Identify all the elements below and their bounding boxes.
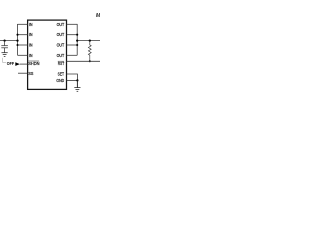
wire SHDN	[20, 63, 28, 65]
svg-text:RST: RST	[58, 61, 65, 66]
ground GND1	[2, 53, 8, 57]
svg-text:SS: SS	[28, 71, 33, 76]
svg-text:OUT: OUT	[57, 22, 65, 27]
junction	[16, 44, 18, 46]
svg-text:OUT: OUT	[57, 43, 65, 48]
junction	[89, 60, 91, 62]
wire SS	[18, 72, 28, 74]
svg-text:OUT: OUT	[57, 32, 65, 37]
wire IN2	[18, 34, 28, 36]
junction	[76, 40, 78, 42]
resistor R1	[88, 41, 91, 62]
svg-text:IN: IN	[29, 53, 32, 58]
wire switch stub	[3, 58, 7, 63]
svg-text:IN: IN	[29, 43, 32, 48]
wire output rail	[77, 40, 100, 42]
junction	[4, 40, 6, 42]
ground GND2	[74, 80, 80, 91]
node SHDN input arrow	[15, 62, 20, 66]
wire IN4	[18, 54, 28, 56]
wire IN3	[18, 44, 28, 46]
wire OUT1	[67, 23, 78, 25]
wire output bus	[76, 24, 78, 55]
svg-text:SET: SET	[58, 72, 65, 77]
wire OUT4	[67, 54, 78, 56]
capacitor C1	[1, 41, 8, 53]
wire OUT2	[67, 34, 78, 36]
junction	[76, 34, 78, 36]
wire SET	[67, 74, 78, 80]
junction	[76, 44, 78, 46]
svg-text:OFF: OFF	[7, 61, 15, 66]
junction	[16, 34, 18, 36]
wire input feed	[0, 40, 18, 42]
svg-text:IN: IN	[29, 32, 32, 37]
wire IN1	[18, 23, 28, 25]
IC U1	[28, 20, 67, 89]
svg-text:OUT: OUT	[57, 53, 65, 58]
junction	[89, 39, 91, 41]
junction	[16, 40, 18, 42]
svg-text:M: M	[96, 13, 100, 19]
wire RST rail	[67, 60, 101, 62]
svg-text:IN: IN	[29, 22, 32, 27]
junction	[76, 79, 78, 81]
svg-text:GND: GND	[56, 78, 64, 83]
wire GND	[67, 79, 78, 81]
wire input bus	[17, 24, 19, 55]
wire OUT3	[67, 44, 78, 46]
svg-text:SHDN: SHDN	[28, 61, 39, 66]
